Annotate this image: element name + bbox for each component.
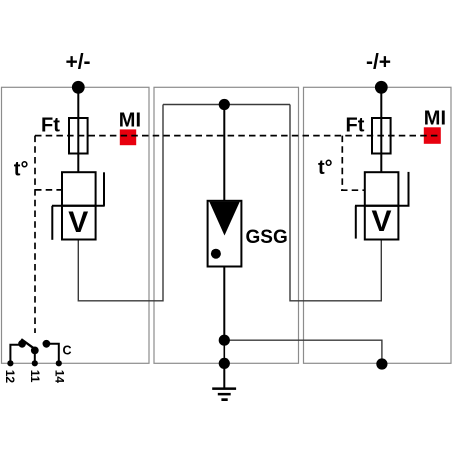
contact 11 pivot dot (31, 347, 39, 355)
wire GSG to node A (223, 267, 225, 341)
disconnector bracket up-right (103, 172, 105, 206)
ground bar 1 (212, 387, 236, 390)
svg-text:t°: t° (14, 158, 29, 180)
indicator MI left (red square) (120, 129, 136, 145)
contact 11 terminal stub (34, 351, 36, 364)
terminal dot 12 (7, 360, 13, 366)
wire: centre bus top edge (163, 104, 290, 106)
enclosure box left (2, 87, 150, 363)
ground bar 2 (218, 393, 231, 396)
wire node A to node C (223, 340, 225, 363)
indicator MI right (red square) (424, 127, 441, 144)
contact 12 terminal stub (10, 345, 19, 364)
svg-text:MI: MI (119, 109, 141, 131)
node A dot (219, 335, 230, 346)
wire: left varistor bottom loop into centre (78, 105, 163, 301)
enclosure box middle (154, 87, 299, 363)
varistor V box left (62, 206, 96, 240)
node C dot on enclosure edge (219, 358, 230, 369)
svg-text:GSG: GSG (246, 227, 288, 248)
svg-text:Ft: Ft (41, 115, 60, 137)
contact 12 fixed dot (18, 340, 26, 348)
svg-text:14: 14 (52, 370, 66, 384)
wire: node A to right PE dot (224, 340, 382, 363)
enclosure box right (304, 87, 452, 363)
spark gap GSG triangle (209, 202, 240, 236)
svg-text:C: C (63, 344, 72, 358)
dashed monitoring line horizontal (35, 135, 441, 137)
contact 14 fixed dot (43, 340, 51, 348)
thermal disconnector box right (365, 172, 399, 206)
terminal dot right (375, 81, 388, 94)
terminal dot left (72, 81, 85, 94)
spark gap GSG gas dot (211, 249, 221, 259)
svg-text:12: 12 (3, 370, 17, 384)
node B dot right PE (376, 358, 387, 369)
dashed t-line left vertical (34, 136, 36, 333)
svg-text:Ft: Ft (346, 115, 365, 137)
disconnector bracket up-right right column (408, 172, 410, 206)
disconnector bracket down-left (51, 206, 53, 240)
wire terminal through fuse to varistor right (380, 87, 382, 172)
svg-text:V: V (68, 206, 88, 239)
thermal disconnector box left (62, 172, 96, 206)
svg-text:-/+: -/+ (366, 51, 391, 74)
node: centre bus junction dot (219, 99, 230, 110)
fuse Ft left (69, 118, 88, 154)
contact 14 terminal stub (46, 344, 58, 364)
dashed stub to left disconnector (35, 189, 62, 191)
svg-text:+/-: +/- (65, 51, 90, 74)
svg-text:MI: MI (424, 107, 446, 129)
spark gap GSG body (208, 201, 242, 267)
ground bar 3 (221, 398, 227, 401)
fuse Ft right (372, 118, 391, 154)
disconnector bracket down-left right column (355, 206, 357, 239)
wire: right varistor bottom loop into centre (290, 105, 381, 301)
disconnector break line right (355, 205, 410, 207)
svg-text:t°: t° (318, 157, 333, 179)
disconnector break line left (52, 205, 105, 207)
wire terminal through fuse to varistor left (77, 87, 79, 172)
dashed t-line right vertical (341, 136, 343, 190)
svg-text:V: V (371, 205, 391, 238)
dashed stub to right disconnector (341, 189, 365, 191)
wire junction to GSG (223, 105, 225, 202)
contact movable arm (21, 339, 36, 350)
terminal dot 14 (56, 360, 62, 366)
wire node C to ground (223, 363, 225, 388)
varistor V box right (365, 206, 399, 240)
terminal dot 11 (32, 360, 38, 366)
svg-text:11: 11 (28, 370, 42, 383)
